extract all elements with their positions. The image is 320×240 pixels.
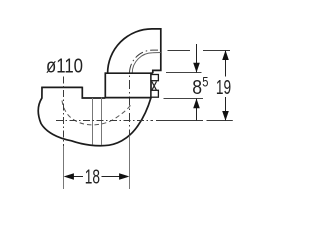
- lower horizontal axis center line (dash-dot in body): [56, 120, 153, 122]
- seal ring bottom tab: [151, 90, 158, 97]
- elbow outer arc and spigot outline: [108, 29, 161, 73]
- elbow inner arc: [132, 53, 161, 74]
- svg-text:5: 5: [202, 75, 208, 90]
- dim 19 dimension line upper segment with up arrow: [225, 51, 227, 77]
- svg-text:19: 19: [216, 77, 231, 99]
- seal ring top tab: [151, 75, 158, 81]
- left outlet vertical axis center line: [63, 77, 65, 147]
- dim 18 left extension line: [63, 146, 65, 189]
- socket bottom edge: [105, 97, 152, 99]
- trap internal partition wall right: [101, 98, 103, 145]
- horizontal axis center line extension right segment: [203, 50, 230, 52]
- socket right edge: [150, 72, 152, 98]
- socket left edge: [104, 72, 106, 98]
- trap body outline: [38, 87, 151, 145]
- dim 8.5 lower dimension line with up arrow: [196, 99, 198, 121]
- left outlet step edge: [82, 87, 105, 98]
- svg-text:ø110: ø110: [46, 56, 83, 78]
- dim 8.5 top reference line: [166, 72, 202, 74]
- dim 18 dimension line left segment with left arrow: [73, 176, 83, 178]
- left outlet opening edge: [41, 86, 82, 88]
- dim 18 right extension line: [129, 136, 131, 190]
- dim 8.5 bottom reference line: [164, 98, 204, 100]
- trap internal partition wall left: [92, 98, 94, 145]
- horizontal axis center line extension left segment: [168, 50, 191, 52]
- socket top edge: [105, 72, 153, 74]
- dim 18 dimension line right segment with right arrow: [102, 176, 120, 178]
- lower axis extension solid segment right: [207, 120, 233, 122]
- dim 8.5 upper dimension line with down arrow: [196, 44, 198, 73]
- hidden inner channel arc (dashed): [62, 101, 131, 125]
- svg-text:8: 8: [192, 77, 202, 99]
- seal ring cross marks: [152, 82, 157, 91]
- dim 19 dimension line lower segment with down arrow: [225, 97, 227, 121]
- lower axis extension solid segment left: [156, 120, 203, 122]
- svg-text:18: 18: [85, 166, 100, 188]
- elbow body fill: [108, 29, 161, 73]
- elbow axis center line (vertical, bend arc): [130, 50, 159, 135]
